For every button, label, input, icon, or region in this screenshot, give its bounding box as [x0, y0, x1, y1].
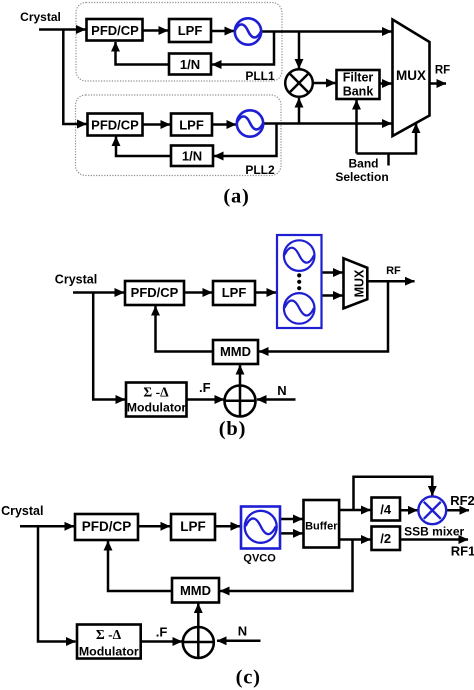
svg-text:MUX: MUX — [353, 269, 367, 297]
svg-text:Σ -Δ: Σ -Δ — [96, 627, 122, 642]
svg-text:Buffer: Buffer — [305, 521, 338, 533]
svg-text:MUX: MUX — [396, 68, 426, 83]
svg-text:Modulator: Modulator — [79, 645, 139, 659]
svg-text:/4: /4 — [380, 502, 392, 517]
svg-text:1/N: 1/N — [182, 149, 202, 164]
svg-text:RF: RF — [435, 65, 450, 77]
svg-text:(a): (a) — [223, 186, 249, 208]
svg-text:Modulator: Modulator — [127, 401, 187, 415]
svg-text:N: N — [238, 624, 247, 639]
svg-text:.F: .F — [199, 380, 211, 395]
svg-text:SSB mixer: SSB mixer — [404, 525, 464, 539]
svg-text:MMD: MMD — [220, 344, 251, 359]
svg-text:MMD: MMD — [180, 583, 211, 598]
svg-text:PFD/CP: PFD/CP — [91, 23, 139, 38]
svg-text:RF: RF — [386, 265, 401, 277]
svg-text:PFD/CP: PFD/CP — [91, 117, 139, 132]
svg-text:RF2: RF2 — [450, 493, 474, 508]
svg-text:Σ -Δ: Σ -Δ — [143, 385, 169, 400]
svg-text:Filter: Filter — [343, 71, 374, 85]
svg-text:N: N — [277, 383, 286, 398]
svg-text:.F: .F — [156, 625, 168, 640]
svg-text:PLL1: PLL1 — [245, 69, 275, 83]
svg-text:Crystal: Crystal — [1, 504, 43, 518]
svg-text:(c): (c) — [236, 667, 261, 689]
svg-text:Crystal: Crystal — [55, 273, 97, 287]
svg-text:QVCO: QVCO — [243, 553, 276, 565]
svg-text:/2: /2 — [380, 531, 391, 546]
svg-text:Band: Band — [349, 157, 379, 171]
svg-text:Crystal: Crystal — [20, 10, 61, 24]
svg-text:PFD/CP: PFD/CP — [82, 519, 132, 534]
svg-text:RF1: RF1 — [451, 544, 474, 559]
svg-text:LPF: LPF — [178, 23, 203, 38]
svg-text:Bank: Bank — [343, 85, 374, 99]
svg-text:LPF: LPF — [222, 285, 247, 300]
svg-text:1/N: 1/N — [180, 57, 200, 72]
svg-text:(b): (b) — [219, 418, 246, 440]
svg-text:LPF: LPF — [179, 117, 204, 132]
svg-text:PFD/CP: PFD/CP — [131, 285, 179, 300]
svg-text:PLL2: PLL2 — [245, 163, 275, 177]
svg-text:Selection: Selection — [335, 170, 388, 184]
svg-text:LPF: LPF — [180, 519, 206, 534]
